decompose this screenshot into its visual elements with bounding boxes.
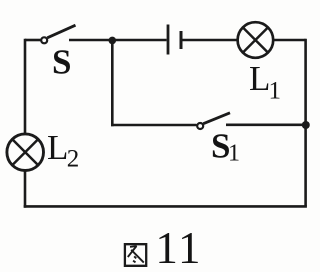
svg-text:2: 2	[67, 146, 80, 173]
battery positive plate (long)	[167, 25, 170, 55]
node A junction dot	[109, 37, 117, 45]
svg-text:1: 1	[269, 78, 282, 105]
wire: top-left segment from corner to switch S	[25, 39, 41, 42]
wire: left vertical from top corner down to lamp L2	[24, 39, 27, 134]
switch S lever	[47, 25, 75, 38]
wire: lamp L1 to top-right corner	[273, 39, 305, 42]
label: switch S1	[211, 126, 240, 166]
battery negative plate (short)	[180, 31, 183, 49]
svg-text:11: 11	[155, 223, 202, 272]
lamp L2 cross	[12, 139, 38, 165]
svg-text:L: L	[249, 59, 270, 98]
wire: middle branch horizontal to switch S1	[111, 124, 197, 127]
wire: battery to lamp L1	[183, 39, 238, 42]
node B junction dot	[302, 121, 310, 129]
label: lamp L1	[249, 59, 281, 104]
label: lamp L2	[47, 128, 79, 172]
svg-text:S: S	[52, 42, 71, 81]
wire: middle branch vertical from node A	[111, 40, 114, 126]
caption: character 图 (drawn)	[125, 244, 146, 266]
svg-text:L: L	[47, 128, 68, 167]
wire: switch S fixed contact to junction A to battery	[69, 39, 167, 42]
wire: bottom horizontal	[24, 205, 307, 208]
wire: switch S1 fixed contact to node B	[226, 124, 306, 127]
lamp L1 circle	[238, 22, 274, 58]
svg-text:1: 1	[228, 141, 240, 167]
wire: right vertical	[304, 39, 307, 207]
wire: left vertical below lamp L2	[24, 170, 27, 207]
switch S1 pivot circle	[197, 123, 203, 129]
switch S1 lever	[203, 113, 230, 124]
caption: figure number 11	[155, 223, 202, 272]
lamp L2 circle	[7, 134, 44, 171]
switch S pivot circle	[41, 37, 47, 43]
label: switch S	[52, 42, 71, 81]
lamp L1 cross	[243, 27, 268, 52]
